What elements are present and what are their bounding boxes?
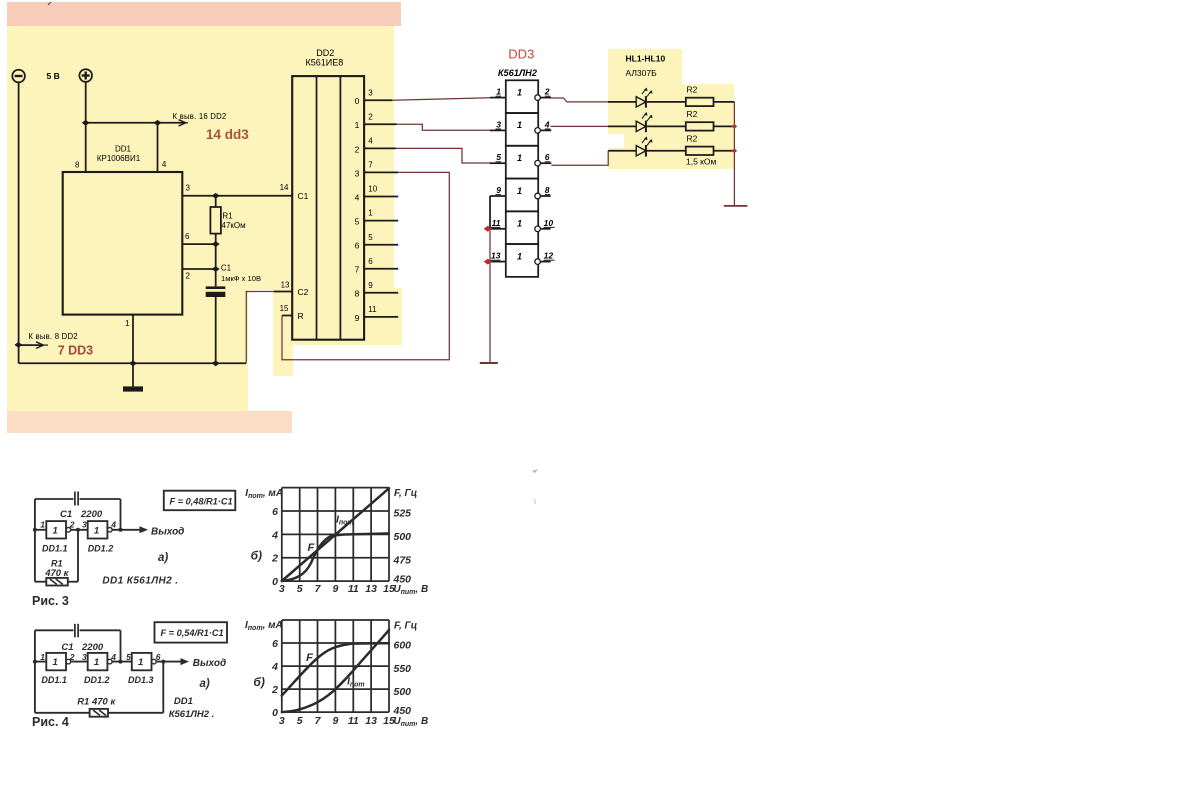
wire arrow to pin8 DD2 [19, 342, 48, 349]
svg-text:Iпот: Iпот [347, 677, 365, 689]
svg-text:C1: C1 [221, 263, 232, 272]
svg-text:Iпот: Iпот [336, 515, 354, 527]
svg-text:а): а) [200, 678, 210, 690]
svg-text:F, Гц: F, Гц [394, 488, 417, 499]
resistor R1 [210, 196, 221, 286]
junction pin3/R1 [212, 193, 220, 199]
svg-text:1: 1 [517, 186, 522, 196]
svg-text:DD1: DD1 [174, 696, 193, 707]
inverter bubble [535, 226, 541, 232]
svg-text:C2: C2 [298, 287, 309, 297]
pin number 12 [544, 251, 555, 261]
svg-text:11: 11 [348, 583, 359, 595]
svg-text:47кОм: 47кОм [222, 221, 246, 230]
svg-text:4: 4 [544, 119, 550, 129]
junction pin2/C1 [212, 266, 220, 272]
fig4 wire C1 top right [80, 629, 121, 631]
junction pin6 [212, 241, 220, 247]
wire DD3 output pin 10 stub [540, 228, 550, 230]
wire out0 to DD3 pin1 [392, 98, 490, 101]
svg-text:6: 6 [355, 241, 360, 251]
junction marker pin 13 [484, 259, 492, 265]
wire DD2 R stub [282, 315, 292, 317]
svg-text:К выв. 8 DD2: К выв. 8 DD2 [28, 332, 77, 341]
svg-text:1: 1 [40, 519, 45, 529]
fig4 wire left vertical [34, 630, 36, 713]
svg-text:3: 3 [82, 519, 87, 529]
white notch in LED patch [608, 134, 624, 148]
svg-text:HL1-HL10: HL1-HL10 [626, 54, 666, 64]
svg-text:9: 9 [355, 313, 360, 323]
wire DD2 output 9 stub [364, 316, 398, 318]
fig3 wire C1 top left [35, 498, 74, 500]
wire out2 to DD3 pin5 [396, 148, 490, 163]
fig3 wire C1 top right [80, 498, 121, 500]
fig3 curve F [282, 488, 389, 581]
fig3 graph grid [282, 488, 389, 581]
svg-text:7: 7 [368, 161, 373, 170]
svg-text:R1: R1 [222, 212, 233, 221]
LED HL1 [608, 88, 686, 108]
fig4 wire 1-2 [71, 661, 88, 663]
svg-text:АЛ307Б: АЛ307Б [626, 68, 658, 78]
svg-text:4: 4 [271, 529, 278, 541]
wire DD2 output 4 stub [364, 196, 398, 198]
inverter bubble [535, 160, 541, 166]
fig4 resistor R1 [90, 709, 108, 717]
svg-text:14 dd3: 14 dd3 [206, 127, 249, 142]
fig4 node output [161, 660, 165, 664]
wire DD3 output pin 8 stub [540, 195, 550, 197]
svg-text:F: F [308, 542, 315, 554]
svg-text:500: 500 [394, 531, 412, 543]
svg-text:DD1: DD1 [115, 145, 132, 154]
svg-text:10: 10 [544, 218, 554, 228]
pin number 4 [544, 119, 551, 129]
svg-text:Выход: Выход [151, 527, 184, 538]
svg-text:2: 2 [271, 684, 278, 696]
svg-text:5: 5 [297, 583, 303, 595]
fig3 wire left vertical [34, 499, 36, 582]
fig4 wire bottom left [35, 712, 90, 714]
fig4 graph grid [282, 620, 389, 712]
inverter DD1.1 fig4 [46, 653, 70, 670]
resistor R2 row1 [686, 98, 735, 106]
svg-text:3: 3 [355, 168, 360, 178]
svg-text:8: 8 [355, 289, 360, 299]
inverter DD1.1 [46, 521, 70, 538]
capacitor C1 [206, 286, 226, 363]
svg-text:2: 2 [355, 144, 360, 154]
svg-text:Iпот, мА: Iпот, мА [245, 620, 283, 632]
svg-text:5: 5 [126, 652, 131, 662]
wire tie pins 9-11 [489, 196, 491, 229]
inverter DD3.4 box [506, 179, 538, 212]
fig4 wire output down [162, 662, 164, 713]
svg-text:6: 6 [185, 232, 190, 241]
junction on plus rail [82, 120, 90, 126]
svg-text:0: 0 [272, 707, 278, 719]
svg-text:4: 4 [110, 519, 116, 529]
inverter DD1.2 [88, 521, 112, 538]
wire minus rail down left side [18, 82, 20, 363]
background yellow lower-left extension [7, 345, 248, 411]
svg-text:4: 4 [271, 661, 278, 673]
svg-text:1: 1 [517, 219, 522, 229]
pin number 2 [544, 87, 551, 97]
svg-text:1: 1 [517, 87, 522, 97]
wire DD2 output 2 stub [364, 147, 396, 149]
wire DD3 output pin 2 stub [540, 97, 551, 99]
svg-text:5: 5 [368, 233, 373, 242]
svg-text:10: 10 [368, 185, 377, 194]
svg-text:500: 500 [394, 686, 412, 698]
pin number 13 [490, 251, 501, 261]
svg-text:1: 1 [517, 120, 522, 130]
svg-text:F: F [306, 652, 313, 664]
svg-text:R2: R2 [687, 84, 698, 94]
svg-text:11: 11 [492, 218, 501, 228]
background yellow strip right of white notch [273, 345, 293, 376]
svg-text:Выход: Выход [193, 658, 226, 669]
fig3 curve Ipot [282, 533, 389, 581]
svg-text:F = 0,54/R1·C1: F = 0,54/R1·C1 [161, 628, 224, 638]
wire pins 11-13 to ground [489, 229, 491, 362]
svg-text:R2: R2 [687, 109, 698, 119]
background yellow bulge right of DD2 [394, 288, 402, 345]
svg-text:15: 15 [280, 304, 289, 313]
svg-text:475: 475 [393, 554, 412, 566]
pin number 6 [545, 152, 551, 162]
fig3 wire output up [120, 499, 122, 530]
white notch in yellow background [248, 290, 273, 411]
background pink bottom strip [7, 411, 292, 433]
svg-text:5: 5 [496, 152, 501, 162]
wire DD3 input pin 5 stub [490, 162, 506, 164]
svg-text:DD2: DD2 [316, 48, 334, 58]
svg-text:0: 0 [355, 96, 360, 106]
stray pen tick top [48, 2, 51, 5]
svg-text:8: 8 [75, 160, 80, 169]
svg-text:1: 1 [125, 319, 130, 328]
svg-text:4: 4 [110, 652, 116, 662]
svg-text:1: 1 [517, 153, 522, 163]
svg-text:F, Гц: F, Гц [394, 620, 417, 631]
svg-text:6: 6 [272, 506, 278, 518]
junction C1/bus [212, 360, 220, 366]
svg-text:9: 9 [332, 715, 338, 727]
svg-text:14: 14 [280, 183, 289, 192]
wire DD2 C2 to ground bus [246, 292, 273, 363]
svg-text:7: 7 [315, 715, 322, 727]
inverter DD3.2 box [506, 113, 538, 146]
wire DD3 input pin 11 stub [490, 228, 506, 230]
pin number 8 [545, 185, 551, 195]
svg-text:2: 2 [69, 519, 75, 529]
svg-text:F = 0,48/R1·C1: F = 0,48/R1·C1 [170, 497, 233, 507]
wire DD2 output 0 stub [364, 99, 392, 101]
svg-text:Рис. 3: Рис. 3 [32, 594, 69, 608]
svg-text:1: 1 [94, 525, 99, 536]
pin number 5 [496, 152, 502, 162]
background yellow main schematic area [7, 26, 394, 345]
svg-text:DD3: DD3 [508, 47, 534, 62]
svg-text:R2: R2 [687, 133, 698, 143]
svg-text:12: 12 [544, 251, 554, 261]
svg-text:1: 1 [40, 652, 45, 662]
pin number 3 [496, 119, 502, 129]
wire out3 to DD2 R loop [282, 172, 449, 359]
svg-text:К561ЛН2 .: К561ЛН2 . [169, 709, 215, 720]
svg-text:1: 1 [368, 209, 373, 218]
junction at pin4 drop [154, 120, 162, 126]
svg-text:6: 6 [156, 652, 161, 662]
wire ground bus [19, 362, 247, 364]
wire DD1 pin3 to DD2 C1 [182, 195, 292, 197]
svg-text:К561ЛН2: К561ЛН2 [498, 68, 538, 78]
wire down to DD1 pin4 [157, 123, 159, 172]
wire DD2 output 8 stub [364, 292, 398, 294]
wire DD2 output 6 stub [364, 244, 398, 246]
svg-text:13: 13 [491, 251, 501, 261]
wire DD2 C2 stub [274, 291, 293, 293]
fig3 node input [33, 528, 37, 532]
inverter DD3.6 box [506, 244, 538, 277]
LED HL2 [608, 112, 686, 132]
wire plus down to DD1 pin8 [85, 82, 87, 172]
fig4 wire 2-3 [112, 661, 132, 663]
wire pin2 to HL1 [551, 98, 608, 102]
svg-text:1: 1 [496, 87, 501, 97]
background yellow LED patch [608, 49, 682, 169]
svg-text:3: 3 [186, 184, 191, 193]
fig3 resistor R1 [46, 578, 68, 586]
fig3 wire mid down [77, 530, 79, 582]
fig3 capacitor C1 [75, 492, 78, 506]
svg-text:0: 0 [272, 576, 278, 588]
svg-text:DD1 К561ЛН2 .: DD1 К561ЛН2 . [102, 576, 178, 587]
svg-text:1: 1 [53, 657, 58, 668]
junction left rail arrow [14, 342, 22, 348]
svg-text:3: 3 [279, 715, 285, 727]
svg-text:9: 9 [368, 281, 373, 290]
svg-text:525: 525 [394, 508, 412, 520]
fig3 wire bottom right [68, 581, 78, 583]
pin number 10 [544, 218, 555, 228]
svg-text:1: 1 [355, 120, 360, 130]
svg-text:7 DD3: 7 DD3 [58, 344, 93, 358]
fig3 wire bottom left [35, 581, 46, 583]
pin number 11 [490, 218, 501, 228]
resistor R2 row2 [686, 122, 735, 130]
svg-text:DD1.2: DD1.2 [88, 544, 114, 554]
fig3 node mid [76, 528, 80, 532]
svg-text:К выв. 16 DD2: К выв. 16 DD2 [173, 112, 227, 121]
svg-text:6: 6 [545, 152, 550, 162]
svg-text:7: 7 [355, 265, 360, 275]
svg-text:11: 11 [368, 305, 377, 314]
fig4 curve Ipot [282, 630, 389, 712]
wire DD1 pin1 down [132, 315, 134, 364]
wire arrow to pin16 DD2 [158, 120, 189, 126]
fig4 wire input [35, 661, 46, 663]
svg-text:1: 1 [517, 251, 522, 261]
svg-text:6: 6 [368, 257, 373, 266]
fig4 node input [33, 660, 37, 664]
svg-text:2: 2 [368, 112, 373, 121]
background pink header bar [7, 2, 401, 26]
wire DD1 pin6 [182, 243, 215, 245]
svg-text:1,5 кОм: 1,5 кОм [686, 156, 717, 166]
pin number 9 [496, 185, 502, 195]
inverter DD3.3 box [506, 146, 538, 179]
svg-text:2: 2 [271, 553, 278, 565]
counter DD2 K561IE8 box [292, 76, 364, 340]
junction marker pin 11 [484, 226, 492, 232]
wire DD3 input pin 13 stub [490, 261, 506, 263]
fig4 formula box [155, 622, 228, 642]
stray gray mark middle [533, 470, 537, 504]
svg-text:1: 1 [94, 657, 99, 668]
svg-text:Uпит, В: Uпит, В [393, 716, 428, 728]
inverter DD1.3 fig4 [132, 653, 156, 670]
svg-text:550: 550 [394, 663, 412, 675]
op chip DD1 KR1006VI1 box [63, 172, 183, 315]
svg-text:13: 13 [281, 280, 290, 289]
svg-text:1: 1 [53, 525, 58, 536]
svg-text:5 В: 5 В [47, 71, 60, 81]
svg-text:600: 600 [394, 640, 412, 652]
wire out1 to DD3 pin3 [397, 124, 490, 130]
svg-text:1: 1 [138, 657, 143, 668]
wire DD2 output 5 stub [364, 220, 398, 222]
fig3 wire between inverters [71, 529, 88, 531]
fig4 wire C1 down [120, 630, 122, 661]
fig3 wire input [35, 529, 46, 531]
fig4 capacitor C1 [75, 624, 78, 638]
ground rail R2 common [724, 205, 748, 207]
svg-text:DD1.1: DD1.1 [42, 544, 68, 554]
svg-text:б): б) [251, 549, 262, 563]
svg-text:7: 7 [315, 583, 322, 595]
inverter bubble [535, 193, 541, 199]
fig3 wire output [112, 529, 140, 531]
ground rail DD3 inputs [480, 362, 498, 364]
svg-text:1мкФ х 10В: 1мкФ х 10В [221, 274, 261, 283]
wire DD2 output 7 stub [364, 268, 398, 270]
wire DD2 output 1 stub [364, 123, 397, 125]
svg-text:Uпит, В: Uпит, В [393, 584, 428, 596]
inverter bubble [535, 95, 541, 101]
ground symbol [123, 363, 143, 391]
inverter bubble [535, 128, 541, 134]
wire +5V horizontal [86, 122, 158, 124]
svg-text:13: 13 [365, 715, 377, 727]
svg-text:5: 5 [297, 715, 303, 727]
svg-text:2: 2 [69, 652, 75, 662]
fig3 node output [119, 528, 123, 532]
wire pin6 to HL3 [551, 151, 608, 165]
wire DD3 output pin 12 stub [540, 261, 550, 263]
wire DD3 input pin 9 stub [490, 195, 506, 197]
svg-text:Iпот, мА: Iпот, мА [245, 488, 283, 500]
svg-text:R1 470 к: R1 470 к [77, 696, 116, 707]
minus terminal [12, 70, 25, 83]
svg-text:а): а) [158, 552, 168, 564]
svg-text:6: 6 [272, 638, 278, 650]
svg-text:DD1.3: DD1.3 [128, 675, 154, 685]
fig3 formula box [164, 491, 236, 511]
junction pin1/bus [129, 360, 137, 366]
svg-text:4: 4 [355, 192, 360, 202]
svg-text:3: 3 [279, 583, 285, 595]
background yellow R2 patch [682, 84, 734, 169]
svg-text:4: 4 [162, 160, 167, 169]
fig4 node C1 tap [119, 660, 123, 664]
fig4 wire output [156, 661, 181, 663]
wire DD3 output pin 4 stub [540, 129, 551, 131]
wire R2 common down [733, 102, 735, 205]
svg-text:К561ИЕ8: К561ИЕ8 [306, 58, 344, 68]
svg-text:9: 9 [496, 185, 501, 195]
svg-text:2: 2 [186, 272, 191, 281]
wire DD1 pin2 [182, 268, 215, 270]
plus terminal [79, 69, 92, 82]
svg-text:5: 5 [355, 217, 360, 227]
inverter DD3.1 box [506, 80, 538, 113]
pin number 1 [496, 87, 502, 97]
fig3 output arrow [140, 526, 149, 533]
junction marker HL2 row [732, 124, 738, 129]
svg-text:3: 3 [368, 88, 373, 97]
LED HL3 [608, 137, 686, 157]
inverter DD1.2 fig4 [88, 653, 112, 670]
fig4 wire C1 top left [35, 629, 74, 631]
svg-text:8: 8 [545, 185, 550, 195]
svg-text:2: 2 [544, 87, 550, 97]
svg-text:R: R [298, 311, 304, 321]
svg-text:DD1.1: DD1.1 [41, 675, 67, 685]
fig4 wire bottom right [108, 712, 163, 714]
svg-text:DD1.2: DD1.2 [84, 675, 110, 685]
wire pin4 to HL2 [551, 125, 609, 127]
wire DD3 input pin 1 stub [490, 97, 506, 99]
svg-text:б): б) [253, 675, 264, 689]
wire DD3 output pin 6 stub [540, 162, 551, 164]
svg-text:3: 3 [496, 119, 501, 129]
svg-text:3: 3 [82, 652, 87, 662]
svg-text:13: 13 [365, 583, 377, 595]
fig4 output arrow [181, 658, 190, 665]
svg-text:C1: C1 [298, 191, 309, 201]
wire DD2 output 3 stub [364, 171, 398, 173]
inverter DD3.5 box [506, 211, 538, 244]
junction marker HL3 row [732, 148, 738, 153]
wire DD3 input pin 3 stub [490, 129, 506, 131]
svg-text:9: 9 [332, 583, 338, 595]
svg-text:11: 11 [348, 715, 359, 727]
svg-text:4: 4 [368, 137, 373, 146]
resistor R2 row3 [686, 147, 735, 155]
inverter bubble [535, 259, 541, 265]
fig4 curve F [282, 643, 389, 695]
svg-text:КР1006ВИ1: КР1006ВИ1 [97, 154, 141, 163]
svg-text:Рис. 4: Рис. 4 [32, 715, 69, 729]
